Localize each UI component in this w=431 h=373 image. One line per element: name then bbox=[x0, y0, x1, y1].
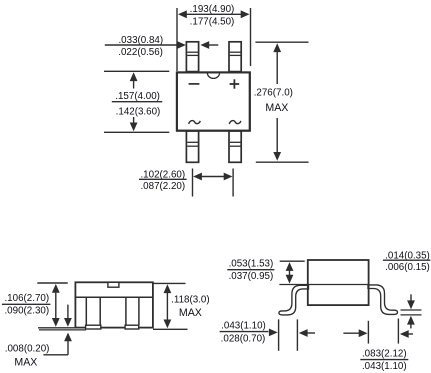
svg-text:.083(2.12): .083(2.12) bbox=[362, 349, 407, 360]
package body (top view) bbox=[177, 72, 250, 130]
leader line with arrow to lead left edge bbox=[105, 44, 179, 46]
fraction bar bbox=[383, 259, 431, 261]
index notch arc hanging below body top edge bbox=[207, 73, 219, 79]
side view left foot bbox=[86, 325, 101, 329]
fraction bar bbox=[2, 303, 51, 305]
dim .118 top extension line bbox=[152, 282, 186, 284]
bottom-left lead bbox=[186, 131, 198, 162]
top-left lead bbox=[186, 42, 198, 72]
dim .008 up arrow with bent leader bbox=[64, 333, 72, 342]
dim .157/.142 top extension line bbox=[104, 70, 169, 72]
svg-text:.090(2.30): .090(2.30) bbox=[4, 306, 49, 317]
dim .043/.028 right arrow bbox=[299, 329, 308, 337]
lead top reference line across body bbox=[279, 284, 368, 286]
fraction bar bbox=[139, 178, 187, 180]
svg-text:MAX: MAX bbox=[265, 102, 288, 114]
svg-text:.043(1.10): .043(1.10) bbox=[221, 321, 266, 332]
top-right lead bbox=[229, 42, 241, 72]
svg-text:MAX: MAX bbox=[14, 357, 37, 369]
dim .276 lower arrow segment bbox=[276, 118, 278, 154]
side view shoulder line bbox=[75, 296, 152, 298]
dim .276 top extension line bbox=[255, 41, 308, 43]
svg-text:.008(0.20): .008(0.20) bbox=[5, 344, 50, 355]
top view: dim .193/.177 extension lines bbox=[176, 8, 178, 71]
minus polarity mark bbox=[189, 83, 200, 85]
dim .276 upper arrow segment bbox=[276, 51, 278, 85]
plus polarity mark bbox=[230, 83, 240, 85]
fraction bar bbox=[360, 359, 408, 361]
side view right foot bbox=[125, 325, 139, 329]
dim .083 left arrow pointing right bbox=[343, 332, 359, 334]
side view top index notch bbox=[108, 282, 119, 287]
bottom-right lead bbox=[229, 131, 241, 162]
svg-text:.006(0.15): .006(0.15) bbox=[385, 262, 430, 273]
dim .106/.090 top extension line bbox=[37, 282, 67, 284]
svg-text:.028(0.70): .028(0.70) bbox=[221, 334, 266, 345]
dim .157/.142 bottom extension line bbox=[104, 131, 169, 133]
svg-text:.118(3.0): .118(3.0) bbox=[171, 294, 209, 305]
svg-text:MAX: MAX bbox=[179, 307, 202, 319]
dim .053/.037 top extension line bbox=[280, 260, 305, 262]
dim .118 bottom extension line bbox=[153, 328, 188, 330]
svg-text:.142(3.60): .142(3.60) bbox=[116, 106, 161, 117]
dim .053/.037 double arrow bbox=[289, 268, 291, 278]
dim .276 bottom extension line bbox=[256, 161, 309, 163]
svg-text:.033(0.84): .033(0.84) bbox=[118, 35, 163, 46]
dim .008 down arrow to seating plane bbox=[67, 305, 69, 320]
dim .083 right arrow pointing left bbox=[400, 330, 409, 338]
dim .157/.142 up arrow bbox=[133, 79, 135, 89]
bottom-right lead plating bands bbox=[230, 141, 241, 143]
dim .014/.006 up arrow bbox=[410, 322, 412, 328]
fraction bar extending into arrow bbox=[220, 331, 269, 333]
dim .102/.087 dimension line with arrows bbox=[198, 176, 228, 178]
top-left lead plating bands bbox=[187, 51, 198, 53]
leader arrow at lead right edge bbox=[209, 44, 218, 46]
dim .106/.090 double arrow bbox=[55, 291, 57, 320]
side view body bbox=[75, 282, 152, 327]
dim .043/.028 extension lines bbox=[278, 319, 280, 350]
dim .083 extension lines bbox=[367, 321, 369, 344]
svg-text:.157(4.00): .157(4.00) bbox=[115, 91, 160, 102]
top-right lead plating bands bbox=[230, 51, 241, 53]
body bottom extension line (left) bbox=[38, 327, 75, 329]
dim .014/.006 reference lines at foot bbox=[401, 309, 422, 311]
svg-text:.193(4.90): .193(4.90) bbox=[190, 4, 235, 15]
dim .118 double arrow bbox=[166, 291, 168, 322]
bottom-left lead plating bands bbox=[187, 141, 198, 143]
top view: dim .193/.177 dimension line with arrows bbox=[181, 13, 247, 15]
svg-text:.087(2.20): .087(2.20) bbox=[140, 181, 185, 192]
svg-text:.022(0.56): .022(0.56) bbox=[118, 47, 163, 58]
AC tilde mark left bbox=[189, 121, 201, 124]
seating plane line (left) bbox=[39, 329, 86, 331]
svg-text:.043(1.10): .043(1.10) bbox=[362, 361, 407, 372]
dim .102/.087 extension lines bbox=[192, 169, 194, 197]
right gull-wing lead bbox=[368, 285, 398, 315]
body redrawn on top of leads bbox=[177, 72, 250, 130]
fraction bar bbox=[227, 269, 274, 271]
svg-text:.276(7.0): .276(7.0) bbox=[254, 88, 293, 99]
side view lead edges bbox=[85, 297, 87, 325]
svg-text:.106(2.70): .106(2.70) bbox=[4, 293, 49, 304]
fraction bar bbox=[112, 101, 162, 103]
svg-text:.037(0.95): .037(0.95) bbox=[229, 271, 274, 282]
AC tilde mark right bbox=[229, 121, 241, 124]
end view body bbox=[308, 260, 369, 305]
svg-text:.177(4.50): .177(4.50) bbox=[190, 16, 235, 27]
svg-text:.053(1.53): .053(1.53) bbox=[229, 259, 274, 270]
dim .014/.006 down arrow bbox=[410, 294, 412, 302]
left gull-wing lead bbox=[279, 285, 309, 315]
dim .157/.142 down arrow bbox=[133, 117, 135, 125]
